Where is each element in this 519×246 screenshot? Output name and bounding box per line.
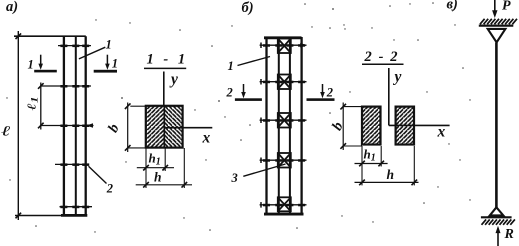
label а) <box>6 0 18 15</box>
leader to part 1 <box>79 47 105 59</box>
svg-text:2 - 2: 2 - 2 <box>364 49 400 65</box>
svg-text:а): а) <box>6 0 18 15</box>
column A web line <box>75 36 77 216</box>
section 1-1 title <box>144 52 188 69</box>
section mark 2 right arrow <box>307 84 335 101</box>
dimension l1 label <box>26 97 40 111</box>
batten 3 with X brace <box>278 113 291 128</box>
batten 4 with X brace <box>278 153 291 168</box>
column A weld row 1 <box>58 45 91 48</box>
column A right flange line <box>85 36 87 216</box>
section mark 1 right arrow <box>94 55 117 73</box>
section 1-1 x axis <box>164 127 212 129</box>
section mark 2 right label <box>326 86 333 100</box>
section 1-1 h dimension <box>136 148 192 188</box>
section mark 2 left arrow <box>235 84 262 101</box>
section 2-2 x label <box>437 124 446 141</box>
svg-text:x: x <box>202 130 211 147</box>
batten 1 with X brace <box>278 39 291 54</box>
section 1-1 h label <box>154 170 162 185</box>
svg-text:y: y <box>393 69 402 86</box>
column B weld row 2 <box>260 79 307 85</box>
column B chord line 4 <box>300 37 302 215</box>
svg-text:3: 3 <box>231 171 238 185</box>
column A left flange line <box>63 36 65 216</box>
svg-text:1: 1 <box>106 38 112 52</box>
strut bar <box>495 43 498 208</box>
column B weld row 1 <box>260 43 307 49</box>
column B weld row 5 <box>260 202 307 208</box>
column B chord line 2 <box>278 37 280 215</box>
svg-text:1: 1 <box>112 57 118 71</box>
bottom pin support triangle <box>490 207 504 215</box>
svg-text:1 - 1: 1 - 1 <box>147 52 189 68</box>
svg-text:ℓ: ℓ <box>1 124 11 140</box>
dimension l label <box>1 124 11 140</box>
svg-text:2: 2 <box>326 86 333 100</box>
part 2 label <box>106 182 113 196</box>
column A top line <box>14 35 86 37</box>
bottom support wall line <box>481 216 512 218</box>
top support wall line <box>479 25 514 27</box>
batten 5 with X brace <box>278 197 291 211</box>
section 1-1 h1 label <box>149 151 161 168</box>
column B weld row 4 <box>260 158 307 164</box>
bottom support wall hatching <box>482 219 515 224</box>
section 2-2 left channel hatched <box>362 107 381 145</box>
svg-text:1: 1 <box>228 59 234 73</box>
section 1-1 h1 dimension <box>137 148 174 188</box>
section 2-2 x axis <box>389 124 450 126</box>
top pin support triangle <box>488 29 506 42</box>
part 3 label <box>231 171 238 185</box>
reaction R label <box>504 227 514 242</box>
label в) <box>447 0 458 13</box>
section 1-1 right half hatched <box>164 106 182 148</box>
section 2-2 b dimension <box>340 103 362 151</box>
section 1-1 y label <box>169 71 178 88</box>
column A weld row 5 <box>60 206 93 209</box>
leader to part 2 <box>89 166 107 183</box>
section 1-1 b dimension <box>125 103 146 153</box>
column A weld row 3 <box>40 123 94 128</box>
part 1 label <box>106 38 112 52</box>
top support wall hatching <box>480 19 517 24</box>
leader to part 3 <box>243 164 285 176</box>
section 1-1 y axis <box>163 72 165 107</box>
batten 2 with X brace <box>278 75 291 90</box>
section 2-2 h1 dimension <box>355 146 388 185</box>
section 2-2 h dimension <box>355 146 419 185</box>
section 2-2 y label <box>393 69 402 86</box>
column B top cap plate <box>264 36 302 39</box>
section 2-2 h label <box>387 167 395 182</box>
section mark 2 left label <box>226 86 233 100</box>
label б) <box>242 0 254 16</box>
section 1-1 outline <box>146 106 183 148</box>
column B chord line 1 <box>265 37 267 215</box>
svg-text:P: P <box>502 0 511 14</box>
section 1-1 b label <box>105 121 123 135</box>
dimension l1 line <box>38 83 44 130</box>
column B bottom cap plate <box>264 213 304 216</box>
force P arrow <box>492 0 497 18</box>
reaction R arrow <box>496 226 501 246</box>
section 1-1 x label <box>202 130 211 147</box>
section 2-2 y axis <box>388 68 390 125</box>
svg-text:1: 1 <box>28 58 34 72</box>
section 1-1 left half hatched <box>146 106 165 148</box>
column B weld row 3 <box>260 118 307 124</box>
svg-text:h: h <box>154 170 162 185</box>
svg-text:б): б) <box>242 0 254 16</box>
section mark 1 left label <box>28 58 34 72</box>
column A bottom extension line <box>15 215 62 217</box>
column A weld row 4 <box>55 163 89 166</box>
column B chord line 3 <box>289 37 291 215</box>
svg-text:2: 2 <box>106 182 113 196</box>
section 2-2 title <box>362 49 404 65</box>
svg-text:R: R <box>504 227 514 242</box>
dimension l line <box>16 31 22 220</box>
svg-text:x: x <box>437 124 446 141</box>
section 2-2 right channel hatched <box>396 107 414 145</box>
section mark 1 left arrow <box>34 55 57 73</box>
section 2-2 h1 label <box>364 147 376 164</box>
column A bottom cap plate <box>61 214 87 217</box>
part 1 label column B <box>228 59 234 73</box>
leader to part 1 of column B <box>238 57 271 66</box>
svg-text:y: y <box>169 71 178 88</box>
column A weld row 2 <box>40 85 91 88</box>
svg-text:2: 2 <box>226 86 233 100</box>
force P label <box>502 0 511 14</box>
svg-text:h: h <box>387 167 395 182</box>
section mark 1 right label <box>112 57 118 71</box>
section 2-2 b label <box>329 119 347 133</box>
